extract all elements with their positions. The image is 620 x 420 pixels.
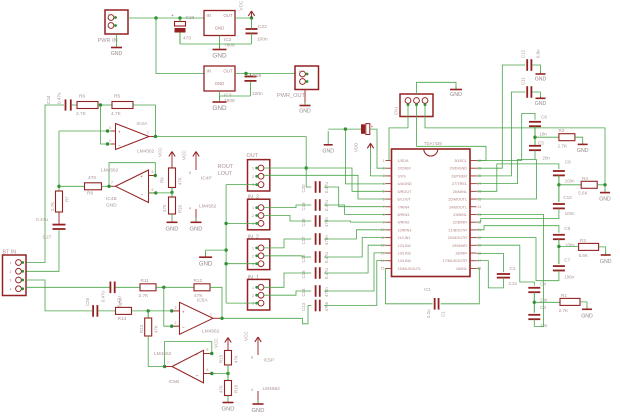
svg-text:VCC: VCC — [244, 331, 249, 341]
connector IN_3 — [248, 199, 270, 230]
svg-text:−: − — [182, 325, 185, 330]
wire IC2 OUT to VCC — [235, 17, 252, 19]
svg-text:4.7K: 4.7K — [111, 111, 122, 117]
wire IC5A out — [220, 306, 308, 324]
svg-text:21/BOUTR: 21/BOUTR — [448, 228, 467, 232]
svg-text:8: 8 — [251, 356, 253, 360]
svg-text:VCC: VCC — [158, 147, 163, 157]
ground (AGND) — [327, 131, 329, 145]
supply VCC arrow (R9) — [169, 152, 175, 157]
svg-text:23n: 23n — [540, 298, 548, 303]
svg-text:VCC: VCC — [214, 338, 219, 348]
svg-text:GND: GND — [215, 26, 225, 31]
wire R13 to IC5B out — [148, 336, 172, 367]
svg-text:1: 1 — [252, 167, 254, 171]
regulator IC2 7808 — [204, 11, 235, 36]
resistor R15 — [225, 350, 232, 365]
svg-text:LM4562: LM4562 — [263, 386, 281, 392]
svg-text:13/LIN3: 13/LIN3 — [398, 252, 411, 256]
svg-text:16n: 16n — [540, 323, 548, 328]
svg-text:100n: 100n — [564, 275, 574, 280]
svg-text:1: 1 — [252, 286, 254, 290]
svg-text:12: 12 — [381, 244, 385, 248]
wire C11 to gnd — [532, 92, 540, 98]
ground (IC2) — [219, 44, 221, 50]
svg-text:IC3: IC3 — [224, 93, 232, 99]
capacitor C13 — [315, 300, 317, 312]
wire pin30 to C6 — [477, 113, 536, 160]
svg-text:GND: GND — [322, 149, 334, 155]
wire IC4A out (ROUT) — [156, 136, 307, 138]
junction — [226, 372, 229, 375]
ground (IC5P) — [257, 400, 259, 404]
wire C3 out to pin23 — [477, 214, 544, 326]
wire agnd to pin4 — [345, 129, 385, 184]
junction — [163, 365, 166, 368]
svg-text:C16: C16 — [301, 254, 306, 263]
svg-text:18/INR: 18/INR — [455, 252, 467, 256]
op-amp IC4A — [116, 124, 150, 150]
svg-text:2.2u: 2.2u — [426, 309, 431, 318]
wire PWRIN to IC2 IN — [128, 17, 204, 19]
resistor R2 — [559, 134, 575, 141]
svg-text:47K: 47K — [118, 298, 123, 306]
wire OUT p2 to IC pin6 — [264, 175, 385, 199]
svg-text:3: 3 — [175, 306, 177, 310]
capacitor C9 — [553, 170, 565, 172]
capacitor C7 — [553, 265, 565, 267]
wire pin28 to C11 — [477, 92, 526, 176]
svg-text:GND: GND — [252, 408, 265, 414]
svg-text:2: 2 — [252, 175, 254, 179]
svg-text:2: 2 — [175, 321, 177, 325]
wire R7 to C27 — [58, 212, 60, 224]
junction — [178, 16, 181, 19]
svg-text:TDA7439: TDA7439 — [424, 141, 442, 146]
svg-text:R14: R14 — [118, 316, 127, 322]
regulator IC3 7808 — [204, 66, 235, 91]
svg-text:2.7K: 2.7K — [558, 144, 568, 149]
svg-text:1: 1 — [10, 261, 12, 265]
svg-text:8/RIN3: 8/RIN3 — [398, 213, 410, 217]
svg-text:2: 2 — [10, 270, 12, 274]
svg-text:5: 5 — [207, 348, 209, 352]
wire C8-C7 — [558, 239, 560, 264]
wire bias vertical — [58, 131, 60, 191]
junction — [533, 301, 536, 304]
svg-text:5: 5 — [383, 190, 385, 194]
svg-text:3: 3 — [109, 126, 111, 130]
svg-text:11/LIN1: 11/LIN1 — [398, 236, 411, 240]
wire IC4B feedback — [109, 163, 155, 187]
wire pin26 to C9 — [477, 164, 559, 191]
power pin IC5P — [257, 342, 259, 356]
svg-text:C26: C26 — [85, 297, 90, 306]
wire C20 to IC pin7 — [324, 187, 385, 207]
svg-text:C7: C7 — [564, 258, 570, 263]
wire BTIN row3 — [26, 280, 92, 311]
wire R13 top — [147, 311, 149, 318]
svg-text:100n: 100n — [257, 37, 268, 43]
svg-text:47K: 47K — [162, 204, 167, 212]
IC U1 TDA7439 — [392, 149, 471, 277]
svg-text:1: 1 — [252, 206, 254, 210]
wire R15-R16 — [227, 365, 229, 381]
svg-text:+: + — [171, 13, 174, 18]
ground (CN1) — [455, 86, 457, 90]
junction — [557, 183, 560, 186]
wire C28 stems — [250, 74, 252, 77]
ground (C11) — [540, 96, 542, 98]
ground (R1) — [586, 307, 588, 310]
svg-text:−: − — [118, 143, 121, 148]
wire junction to R4 — [559, 184, 581, 186]
wire pin25 branch — [477, 160, 537, 200]
capacitor C18 — [315, 215, 317, 227]
svg-text:5/ROUT: 5/ROUT — [398, 190, 413, 194]
wire C5 out — [477, 150, 536, 183]
svg-text:ROUT: ROUT — [218, 164, 234, 170]
svg-text:C24: C24 — [46, 95, 51, 104]
wire R4 to gnd — [597, 185, 605, 192]
wire R3 to gnd — [599, 247, 606, 254]
svg-text:IC4B: IC4B — [106, 196, 117, 202]
connector PWR OUT — [295, 66, 319, 90]
resistor R7 — [56, 191, 63, 212]
svg-text:1/SDA: 1/SDA — [398, 159, 409, 163]
svg-text:C6: C6 — [541, 115, 547, 120]
op-amp IC5B — [172, 350, 204, 383]
svg-text:2: 2 — [252, 294, 254, 298]
svg-text:C20: C20 — [301, 184, 306, 193]
wire C2 to pin17 — [477, 261, 504, 288]
svg-text:3: 3 — [252, 302, 254, 306]
connector IN_1 — [248, 279, 270, 310]
svg-text:GND: GND — [222, 407, 235, 413]
supply VCC arrow — [248, 11, 254, 16]
svg-text:OUT: OUT — [223, 69, 232, 74]
svg-text:47K: 47K — [88, 175, 97, 181]
wire pin15 to C1 — [386, 268, 433, 304]
wire C19 to IC pin8 — [324, 205, 385, 214]
svg-text:18n: 18n — [540, 132, 548, 137]
svg-text:3: 3 — [10, 279, 12, 283]
ground (PWR OUT) — [304, 102, 306, 106]
svg-text:3/VS: 3/VS — [398, 174, 407, 178]
svg-text:47K: 47K — [234, 355, 239, 363]
wire bus to IN_3 pin3 — [226, 222, 257, 224]
capacitor C15 — [315, 267, 317, 279]
svg-text:0.47u: 0.47u — [36, 217, 48, 223]
op-amp IC4B — [116, 170, 149, 203]
wire IC4B minus to divider — [149, 192, 173, 194]
wire junction to IC5A minus — [164, 287, 180, 326]
svg-text:3: 3 — [252, 222, 254, 226]
wire C15 to IC pin12 — [324, 245, 385, 273]
svg-text:IC4P: IC4P — [201, 176, 212, 182]
svg-text:GND: GND — [215, 81, 225, 86]
svg-text:LOUT: LOUT — [218, 171, 234, 177]
svg-text:C22: C22 — [258, 24, 267, 30]
svg-text:6: 6 — [152, 188, 154, 192]
svg-text:IC5P: IC5P — [264, 358, 275, 364]
svg-text:470n: 470n — [324, 235, 329, 245]
wire vcc to R9 — [171, 156, 173, 168]
capacitor C1 — [434, 298, 436, 310]
capacitor C22 — [246, 28, 258, 30]
svg-text:26/MINL: 26/MINL — [453, 190, 467, 194]
svg-text:GND: GND — [166, 227, 179, 233]
svg-text:LM4562: LM4562 — [202, 329, 220, 335]
svg-text:2.7K: 2.7K — [559, 308, 569, 313]
svg-text:LM4562: LM4562 — [137, 149, 155, 155]
junction — [99, 103, 102, 106]
svg-text:−: − — [196, 373, 199, 378]
svg-text:GND: GND — [111, 51, 123, 57]
svg-text:2.7K: 2.7K — [139, 293, 150, 299]
svg-text:R1: R1 — [561, 293, 567, 298]
junction — [170, 309, 173, 312]
connector IN_2 — [248, 239, 270, 270]
wire pin18 to C2 — [477, 253, 504, 272]
svg-text:C1: C1 — [441, 311, 446, 317]
svg-text:+: + — [182, 310, 185, 315]
svg-text:R4: R4 — [582, 176, 588, 181]
svg-text:7: 7 — [383, 205, 385, 209]
svg-text:47K: 47K — [178, 177, 183, 185]
svg-text:14: 14 — [381, 259, 385, 263]
svg-text:CN1: CN1 — [394, 106, 399, 115]
svg-text:R15: R15 — [219, 354, 224, 363]
svg-text:BT IN: BT IN — [3, 250, 17, 256]
capacitor C19 — [315, 199, 317, 211]
wire IC5A out to C13 — [308, 305, 311, 307]
wire IN_2 p1 to C17 — [264, 239, 311, 248]
connector BT IN — [3, 255, 27, 296]
resistor R10 — [169, 197, 176, 214]
capacitor C5 — [529, 145, 541, 147]
wire CN1 top gnd — [417, 82, 457, 94]
svg-text:IC4A: IC4A — [137, 121, 148, 127]
svg-text:22/BINR: 22/BINR — [453, 221, 468, 225]
wire R14 to IC5A plus — [132, 310, 180, 312]
svg-text:9: 9 — [383, 220, 385, 224]
svg-text:R5: R5 — [114, 94, 120, 100]
junction — [106, 129, 109, 132]
capacitor C23 — [175, 22, 186, 27]
ground (IC4P) — [195, 218, 197, 222]
capacitor C11 — [526, 86, 528, 98]
junction — [224, 222, 227, 225]
wire cap to R11 — [116, 286, 140, 288]
wire junction to R2 — [535, 136, 559, 138]
capacitor C2 — [497, 273, 510, 275]
resistor R16 — [225, 381, 232, 396]
resistor R3 — [579, 243, 599, 250]
ground (IC3) — [219, 96, 221, 102]
ground (C12) — [540, 71, 542, 74]
wire CN1 p2 SCL — [417, 105, 487, 161]
wire R1 to gnd — [580, 302, 587, 309]
svg-text:VCC: VCC — [239, 0, 244, 10]
svg-text:5.6K: 5.6K — [578, 191, 588, 196]
wire C23 gnd rail — [180, 43, 220, 45]
junction — [170, 325, 173, 328]
svg-text:GND: GND — [535, 77, 547, 83]
junction — [224, 262, 227, 265]
svg-text:29/DIGND: 29/DIGND — [449, 167, 467, 171]
capacitor C6 — [529, 121, 541, 123]
svg-text:10/RIN1: 10/RIN1 — [398, 228, 412, 232]
svg-text:VDD: VDD — [354, 143, 359, 152]
svg-text:GND: GND — [212, 105, 227, 112]
svg-text:OUT: OUT — [223, 13, 232, 18]
junction — [533, 136, 536, 139]
svg-text:+: + — [141, 174, 144, 179]
resistor R6 — [77, 102, 98, 109]
wire IC3 OUT to PWR OUT — [235, 73, 295, 75]
svg-text:24: 24 — [478, 205, 482, 209]
wire down to IC3 IN — [156, 18, 204, 74]
wire C13 to IC pin14 — [324, 261, 385, 306]
svg-text:20/MOUTR: 20/MOUTR — [448, 236, 467, 240]
svg-text:5: 5 — [152, 170, 154, 174]
capacitor C25 — [109, 282, 111, 294]
svg-text:C18: C18 — [301, 218, 306, 227]
supply VCC arrow (IC5P) — [255, 337, 261, 342]
svg-text:IC1: IC1 — [424, 287, 431, 292]
wire R12 to IC5A out — [210, 287, 222, 318]
power pin IC4P — [195, 156, 197, 170]
svg-text:2: 2 — [252, 254, 254, 258]
supply VDD arrow — [367, 143, 373, 148]
wire pin19 to C4 — [477, 245, 535, 286]
wire IC5B minus to divider — [212, 373, 228, 375]
junction — [154, 174, 157, 177]
svg-text:7808: 7808 — [224, 43, 235, 49]
svg-text:GND: GND — [599, 197, 611, 203]
resistor R8 — [85, 183, 102, 190]
svg-text:0.47u: 0.47u — [101, 290, 106, 302]
op-amp IC5A — [180, 302, 214, 334]
svg-text:6: 6 — [207, 368, 209, 372]
svg-text:R3: R3 — [580, 238, 586, 243]
svg-text:GND: GND — [535, 101, 547, 107]
svg-text:C23: C23 — [186, 15, 195, 21]
svg-text:OUT: OUT — [247, 153, 259, 159]
wire IN_1 p1 to C15 — [264, 273, 311, 287]
wire junction to R1 — [534, 301, 560, 303]
svg-text:2.2u: 2.2u — [509, 281, 518, 286]
svg-text:3: 3 — [252, 183, 254, 187]
wire IC2 gnd pin — [219, 36, 221, 48]
junction — [162, 286, 165, 289]
capacitor C17 — [315, 233, 317, 245]
wire IN_1 p2 to C14 — [264, 291, 311, 295]
svg-text:GND: GND — [581, 314, 593, 320]
resistor R12 — [194, 284, 210, 291]
wire C10 out — [477, 208, 559, 222]
svg-text:0.47u: 0.47u — [57, 92, 62, 104]
svg-text:C10: C10 — [563, 195, 572, 200]
junction — [154, 16, 157, 19]
svg-text:47K: 47K — [219, 385, 224, 393]
capacitor C12 — [526, 59, 528, 71]
svg-text:GND: GND — [577, 148, 589, 154]
wire junction to R8 — [59, 185, 85, 187]
svg-text:C17: C17 — [301, 236, 306, 245]
ground (R16) — [227, 396, 229, 403]
svg-text:16/INL: 16/INL — [456, 267, 467, 271]
junction — [170, 191, 173, 194]
wire R5 to IC4A out — [133, 105, 156, 137]
svg-text:2.7K: 2.7K — [50, 202, 55, 211]
connector OUT — [248, 160, 270, 191]
svg-text:13: 13 — [381, 251, 385, 255]
svg-text:R9: R9 — [160, 177, 165, 183]
wire C12 to gnd — [532, 65, 540, 73]
svg-text:VCC: VCC — [182, 150, 187, 160]
junction — [244, 72, 247, 75]
wire CN1 p3 — [425, 105, 605, 183]
svg-text:R6: R6 — [79, 94, 85, 100]
ground (bus) — [205, 253, 207, 257]
junction — [107, 185, 110, 188]
junction — [224, 248, 227, 251]
svg-text:4: 4 — [189, 207, 191, 211]
capacitor C4 — [528, 287, 540, 289]
resistor R4 — [581, 181, 597, 188]
svg-text:2: 2 — [109, 139, 111, 143]
svg-text:15: 15 — [381, 267, 385, 271]
wire junction to R3 — [559, 245, 579, 247]
wire C24 to R6 — [72, 104, 77, 106]
capacitor C3 — [528, 314, 540, 316]
svg-text:+: + — [118, 130, 121, 135]
svg-text:C13: C13 — [301, 302, 306, 311]
wire IN_2 p2 to C16 — [264, 256, 311, 257]
junction — [57, 185, 60, 188]
svg-text:17/MUXOUTR: 17/MUXOUTR — [443, 259, 468, 263]
svg-text:14/LIN4: 14/LIN4 — [398, 259, 411, 263]
svg-text:100n: 100n — [565, 179, 575, 184]
svg-text:C11: C11 — [521, 77, 526, 85]
svg-text:28/TRER: 28/TRER — [451, 174, 467, 178]
wire C6-C5 — [534, 126, 536, 146]
svg-text:24/BOUTL: 24/BOUTL — [449, 205, 467, 209]
svg-text:C2: C2 — [510, 266, 516, 271]
svg-text:GND: GND — [299, 109, 311, 115]
svg-text:8: 8 — [383, 213, 385, 217]
junction — [305, 166, 308, 169]
svg-text:7: 7 — [167, 361, 169, 365]
junction — [344, 127, 347, 130]
svg-text:19/MINR: 19/MINR — [452, 244, 467, 248]
svg-text:GND: GND — [450, 92, 462, 98]
svg-text:470n: 470n — [324, 301, 329, 311]
wire C17 to IC pin10 — [324, 230, 385, 239]
svg-text:PWR IN: PWR IN — [98, 38, 118, 44]
resistor R9 — [169, 168, 176, 188]
svg-text:1: 1 — [108, 12, 110, 16]
svg-text:IC5A: IC5A — [197, 298, 208, 304]
svg-text:1: 1 — [147, 131, 149, 135]
junction — [106, 142, 109, 145]
svg-text:470: 470 — [183, 36, 191, 42]
svg-text:47K: 47K — [154, 325, 159, 333]
svg-text:IN: IN — [207, 69, 211, 74]
capacitor C8 — [553, 234, 565, 236]
